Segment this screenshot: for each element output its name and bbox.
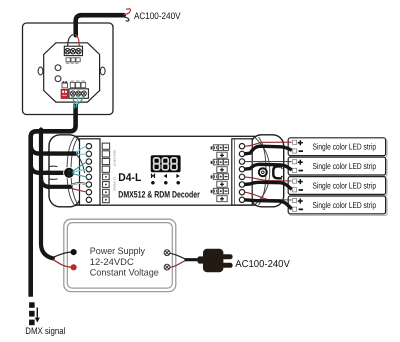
decoder left terminal block: [80, 139, 101, 205]
DMX signal dashes: [29, 302, 34, 308]
panel bottom terminal screw 2: [76, 91, 81, 96]
panel indicator circle 1: [55, 65, 61, 71]
wall panel plate: [23, 23, 114, 115]
plug prong bottom: [222, 263, 233, 268]
decoder right cap contour arcs: [259, 137, 267, 205]
LED strip 2: [288, 157, 387, 176]
decoder right terminal circles: [239, 144, 244, 203]
wire cyan overlay on panel cable: [76, 97, 78, 108]
wire black channel 3 minus: [244, 182, 292, 189]
panel micro label ACN ACL: [66, 63, 79, 64]
panel 2-pin connector: [62, 83, 68, 88]
panel top terminal screw 1: [65, 49, 70, 54]
wire thin red to PSU minus: [53, 260, 71, 268]
decoder button M: [152, 175, 155, 179]
plug body: [203, 249, 223, 272]
wire black channel 1 minus: [244, 146, 292, 154]
wire white loop to terminal 6: [71, 183, 87, 185]
wire red channel 1 plus: [244, 142, 292, 146]
svg-text:Single color LED strip: Single color LED strip: [313, 180, 377, 190]
svg-text:Single color LED strip: Single color LED strip: [313, 142, 377, 152]
svg-text:Power Supply: Power Supply: [90, 245, 145, 256]
wire dark red to terminal 7: [71, 188, 87, 192]
wire cable to power supply: [41, 130, 53, 259]
svg-text:12-24VDC: 12-24VDC: [90, 256, 134, 267]
LED strip 1: [288, 138, 387, 157]
wall panel mounting hole left: [38, 67, 43, 75]
wire cyan fan to terminal 1: [76, 146, 87, 153]
svg-text:Constant Voltage: Constant Voltage: [90, 267, 159, 278]
power supply inner box: [67, 223, 172, 289]
wire branch cable decoder DC input: [41, 178, 71, 187]
panel indicator circle 2: [55, 76, 61, 82]
wire green overlay on panel cable: [73, 97, 75, 109]
decoder right terminal block: [232, 139, 252, 205]
wire cable DC stub over cap: [48, 185, 71, 189]
wall panel mounting hole right: [100, 67, 105, 75]
DMX master octagon body: [44, 43, 100, 102]
decoder 7-segment display: [151, 155, 181, 172]
svg-text:DMX512 & RDM Decoder: DMX512 & RDM Decoder: [118, 189, 200, 199]
decoder button left: [164, 174, 167, 178]
wire black drain arc: [77, 155, 85, 173]
wire teal fan to terminal 5: [73, 174, 87, 177]
panel top terminal block: [64, 46, 82, 55]
LED strip 4: [288, 196, 387, 215]
decoder button right: [176, 174, 179, 178]
decoder right end cap: [251, 135, 284, 207]
wire black channel 4 minus: [244, 200, 292, 209]
wire red PSU to plug: [170, 260, 186, 267]
plug prong top: [222, 254, 233, 259]
wire teal fan to terminal 3: [73, 162, 87, 172]
power supply outer box: [64, 219, 176, 291]
decoder right cap screw: [259, 168, 267, 176]
wire main cable panel to left bus: [31, 104, 76, 297]
wire branch cable into decoder DMX input: [31, 145, 76, 154]
digit 3: [171, 158, 177, 164]
wire thin black to PSU plus: [53, 252, 71, 257]
PSU terminal dot red: [71, 264, 77, 270]
wire green from panel bottom screw: [73, 97, 75, 105]
digit 2: [162, 158, 168, 164]
decoder right cap slot: [273, 166, 282, 178]
svg-text:12-24VDC: 12-24VDC: [113, 177, 117, 192]
wire cable through notch and ferrule: [46, 171, 71, 175]
svg-text:D4-L: D4-L: [118, 172, 141, 184]
svg-text:DMX INPUT: DMX INPUT: [113, 150, 117, 167]
decoder left cap contour arcs: [67, 137, 75, 205]
wire teal from panel bottom screw: [77, 97, 84, 106]
plug cord: [186, 258, 199, 261]
svg-text:AC100-240V: AC100-240V: [235, 259, 290, 270]
wire cyan from panel bottom screw: [76, 97, 78, 105]
wire branch cable through ferrule: [31, 164, 71, 173]
wire red AC lead hook top: [124, 9, 131, 15]
panel DMX out jumper row: [70, 82, 85, 87]
decoder button dots: [151, 181, 155, 185]
PSU AC screw top: [164, 250, 170, 256]
decoder left end cap: [49, 135, 81, 207]
wire cable into decoder again over cap (DMX input): [48, 151, 76, 155]
wire red channel 4 plus: [244, 192, 292, 200]
panel bottom terminal block: [69, 89, 88, 99]
DMX signal arrow: [36, 308, 38, 319]
svg-text:Single color LED strip: Single color LED strip: [313, 161, 377, 171]
panel jumper row under top block: [66, 58, 80, 62]
panel DIP switch red: [61, 89, 68, 98]
panel bottom terminal screw 1: [70, 91, 75, 96]
LED strip 3: [288, 177, 387, 196]
wire red channel 2 plus: [244, 160, 292, 162]
wire black channel 2 minus: [244, 164, 292, 170]
digit 1: [154, 158, 160, 164]
decoder left terminal circles: [86, 144, 91, 203]
decoder channel label group 2: [211, 159, 229, 172]
panel micro label under bottom screws: [71, 95, 85, 98]
panel top terminal screw 3: [76, 49, 81, 54]
PSU terminal dot black: [71, 249, 77, 255]
wire black PSU to plug: [170, 253, 186, 259]
svg-text:DMX signal: DMX signal: [25, 325, 65, 336]
wire cyan fan to terminal 2: [76, 153, 87, 155]
wire black AC lead hook top: [124, 17, 129, 21]
decoder screw slot column: [102, 143, 109, 172]
decoder channel label group 1: [211, 145, 229, 158]
wire black lead into panel top block: [68, 35, 73, 49]
plug neck: [198, 256, 206, 263]
decoder channel label group 3: [211, 174, 229, 187]
panel bottom terminal screw 3: [81, 91, 86, 96]
decoder channel label group 4: [211, 188, 229, 201]
svg-text:AC100-240V: AC100-240V: [134, 10, 181, 21]
wire cyan fan to terminal 4: [73, 169, 87, 172]
wire red channel 3 plus: [244, 177, 292, 181]
cap notch tabs around cable: [50, 165, 58, 168]
wire red lead into panel top block: [75, 35, 79, 49]
wire AC mains cable from wall panel top: [76, 15, 124, 37]
decoder body: [58, 136, 274, 205]
PSU AC screw bottom: [164, 264, 170, 270]
ferrule ring: [64, 168, 74, 178]
svg-text:Single color LED strip: Single color LED strip: [313, 200, 377, 210]
panel top terminal screw 2: [70, 49, 75, 54]
wire AC cable stub inside panel: [73, 22, 78, 35]
